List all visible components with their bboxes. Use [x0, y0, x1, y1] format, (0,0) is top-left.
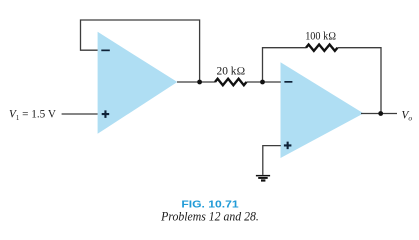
node junction dot at U1 output	[197, 80, 202, 85]
svg-text:100 kΩ: 100 kΩ	[305, 31, 336, 43]
wire feedback loop U1 output to inverting input	[81, 20, 200, 82]
U1 minus sign	[101, 50, 110, 52]
resistor 20 kOhm	[215, 79, 246, 85]
ground symbol	[256, 175, 270, 182]
wire R1 to U2 inverting input	[247, 81, 281, 83]
wire node A up to R2 feedback rail	[263, 48, 307, 82]
U2 plus sign	[284, 142, 292, 150]
op-amp U2	[281, 62, 364, 158]
node junction dot at U2 inverting input	[260, 80, 265, 85]
wire U1 output to R1	[177, 81, 215, 83]
U1 plus sign	[102, 110, 110, 118]
wire R2 to output node	[338, 48, 382, 114]
wire U2 output to Vo	[361, 113, 397, 115]
wire U2 + input to ground	[263, 146, 281, 175]
node junction dot at U2 output	[378, 111, 383, 116]
resistor 100 kOhm	[306, 45, 337, 51]
svg-text:20 kΩ: 20 kΩ	[217, 66, 246, 78]
svg-text:Problems 12 and 28.: Problems 12 and 28.	[160, 208, 259, 223]
U2 minus sign	[284, 81, 292, 83]
op-amp U1	[98, 32, 178, 134]
wire V1 input to U1 +	[62, 113, 98, 115]
